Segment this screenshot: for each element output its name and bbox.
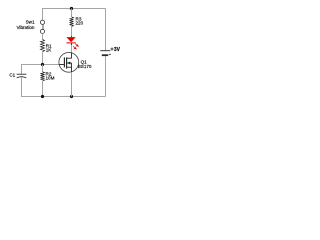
label battery plus	[111, 48, 114, 51]
wire switch to R1	[42, 34, 44, 40]
wire top rail	[43, 9, 106, 20]
resistor R2	[40, 65, 44, 97]
junction dot top rail / R3	[70, 7, 73, 10]
junction dot bottom rail / R2	[41, 95, 44, 98]
wire LED to Q1 drain	[71, 45, 73, 53]
junction dot node A	[41, 63, 44, 66]
transistor Q1	[59, 52, 79, 72]
wire right rail to battery	[105, 9, 107, 51]
node A wire (C1 to gate)	[21, 64, 59, 66]
resistor R3	[69, 9, 73, 36]
svg-text:Vibration: Vibration	[16, 25, 34, 30]
wire Q1 source to bottom rail	[71, 72, 73, 96]
battery BT1 3V	[100, 51, 111, 97]
wire bottom rail	[21, 96, 106, 98]
svg-text:3V: 3V	[114, 47, 120, 53]
capacitor C1	[17, 65, 27, 97]
svg-text:BS170: BS170	[78, 64, 92, 69]
svg-text:Sw1: Sw1	[26, 20, 35, 25]
svg-text:C1: C1	[9, 73, 15, 78]
resistor R1	[40, 39, 44, 52]
svg-text:10M: 10M	[46, 76, 55, 81]
junction dot bottom rail / Q1 source	[70, 95, 73, 98]
wire R1 to node A	[42, 52, 44, 65]
LED D1	[66, 36, 78, 49]
svg-text:1K: 1K	[46, 48, 53, 53]
switch Sw1	[40, 20, 44, 33]
svg-text:220: 220	[76, 20, 84, 25]
